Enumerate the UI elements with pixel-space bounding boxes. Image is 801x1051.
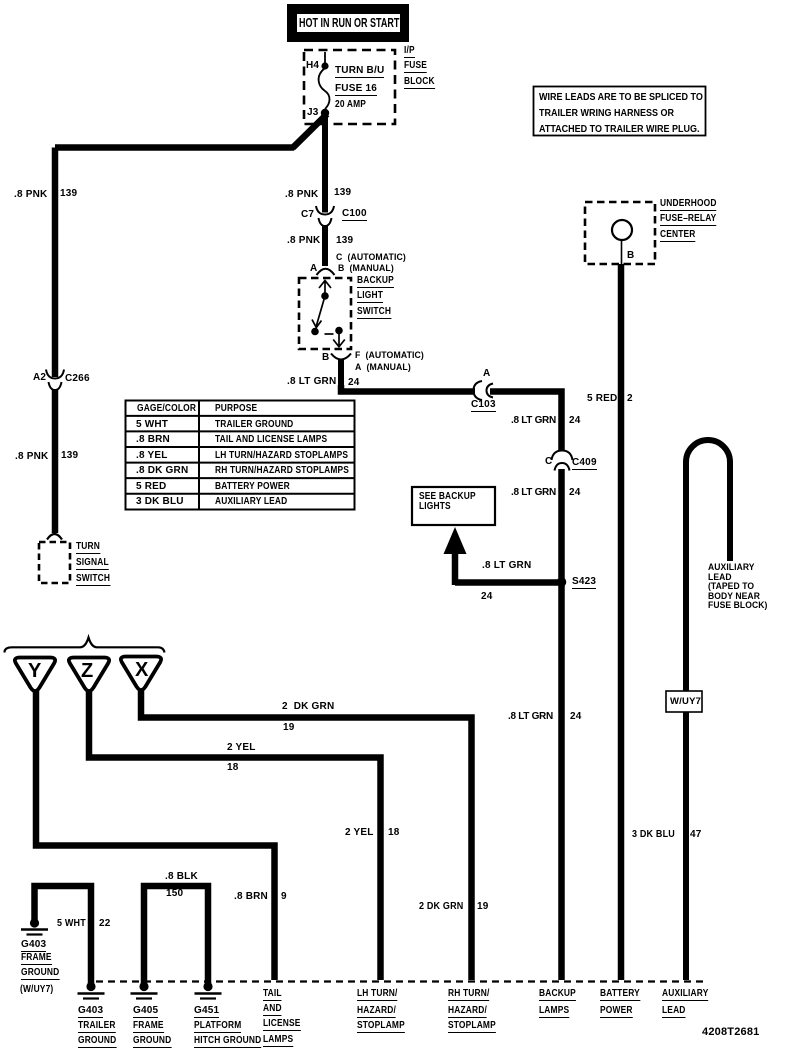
wire .8 PNK 139 horizontal left run <box>55 144 294 151</box>
label W/UY7 <box>670 697 701 707</box>
label 47 <box>690 830 702 840</box>
triangle letter X <box>135 660 148 680</box>
label I/P <box>404 46 415 58</box>
labels G451 PLATFORM HITCH GROUND <box>194 1006 219 1018</box>
label .8 LT GRN (S423 branch) <box>482 561 531 571</box>
table cell 5 WHT <box>136 420 168 430</box>
label C409 <box>572 458 597 470</box>
label 24 (below C409) <box>569 488 581 498</box>
labels AUXILIARY LEAD <box>662 989 708 1001</box>
label C (C409 pin) <box>545 457 552 467</box>
label A (MANUAL) <box>355 363 411 373</box>
label .8 BLK <box>165 872 198 882</box>
label 139 (below C266) <box>61 451 78 461</box>
triangle letter Y <box>28 661 41 681</box>
note box: wire leads spliced <box>534 87 706 136</box>
wire 5 WHT 22 ground loop G403 <box>35 886 92 984</box>
label B (switch bottom pin) <box>322 353 329 363</box>
wire .8 PNK 139 left vertical to C266 <box>52 148 59 378</box>
pin J3 <box>321 109 329 117</box>
label A (C103 pin) <box>483 369 490 379</box>
label .8 LT GRN (switch out) <box>287 377 336 387</box>
triangle letter Z <box>81 661 93 681</box>
trailer connector triangle X <box>121 657 161 691</box>
backup light switch (dashed box) <box>299 278 351 349</box>
arrow to SEE BACKUP LIGHTS <box>444 527 467 554</box>
table cell AUXILIARY LEAD <box>215 497 287 507</box>
label CENTER <box>660 230 696 242</box>
labels G403 FRAME GROUND (W/UY7) <box>21 940 46 952</box>
label C100 <box>342 209 367 221</box>
ground G451 platform hitch ground <box>195 982 222 999</box>
label 22 <box>99 919 111 929</box>
label F (AUTOMATIC) <box>355 351 424 361</box>
wire .8 PNK 139 (C266 down to turn signal switch) <box>52 389 59 533</box>
table cell 3 DK BLU <box>136 497 184 507</box>
label C7 <box>301 210 314 220</box>
label 19 (vertical) <box>477 902 489 912</box>
label HOT IN RUN OR START <box>299 18 399 29</box>
table cell BATTERY POWER <box>215 482 290 492</box>
turn signal switch (dashed box) <box>39 542 70 583</box>
fusible element circle in underhood center <box>612 220 632 240</box>
ground G403 frame ground (W/UY7) <box>21 918 48 934</box>
label .8 PNK (left run) <box>14 190 47 200</box>
label 2 DK GRN (horizontal) <box>282 702 334 712</box>
branch wire from J3 to left run <box>293 114 328 148</box>
wire 2 YEL 18 from Z to LH turn/hazard stoplamp <box>89 690 381 980</box>
pin B lead inside underhood box <box>621 240 623 264</box>
brace over trailer connector triangles <box>5 638 165 653</box>
power box HOT IN RUN OR START <box>287 4 409 42</box>
label pin J3 <box>307 108 319 118</box>
label 2 (5 RED circuit) <box>627 394 633 404</box>
label .8 BRN <box>234 892 268 902</box>
wire .8 LT GRN 24 from C409 down to S423 <box>558 469 565 582</box>
auxiliary lead note <box>708 563 767 611</box>
underhood fuse-relay center (dashed box) <box>585 202 655 264</box>
labels RH TURN/HAZARD/STOPLAMP <box>448 989 489 1001</box>
wire .8 PNK 139 (C100 to backup switch) <box>322 226 328 266</box>
note text: wire leads <box>539 90 703 138</box>
label 20 AMP <box>335 100 366 110</box>
table cell PURPOSE <box>215 404 257 414</box>
wire .8 PNK 139 (J3 down to C100) <box>322 115 328 213</box>
label 139 (left run) <box>60 189 77 199</box>
ground G405 frame ground <box>131 982 158 999</box>
label .8 LT GRN (below C103) <box>511 416 556 426</box>
wire 5 RED 2 down to battery power <box>618 264 625 980</box>
label SIGNAL <box>76 558 109 570</box>
table cell GAGE/COLOR <box>137 404 196 414</box>
label 139 (below C100) <box>336 236 353 246</box>
label 139 (right run) <box>334 188 351 198</box>
label pin B (underhood) <box>627 251 634 261</box>
table cell TRAILER GROUND <box>215 420 293 430</box>
label FUSE-RELAY <box>660 214 716 226</box>
table cell 5 RED <box>136 482 166 492</box>
diagram number 4208T2681 <box>702 1027 759 1037</box>
label LIGHT <box>357 291 383 303</box>
connector A2/C266 <box>46 370 64 391</box>
table cell .8 YEL <box>136 451 168 461</box>
wire .8 LT GRN 24 from S423 down to backup lamps <box>558 582 565 980</box>
label UNDERHOOD <box>660 199 717 211</box>
label .8 LT GRN (below C409) <box>511 488 556 498</box>
labels TAIL AND LICENSE LAMPS <box>263 989 282 1001</box>
label 18 (horizontal) <box>227 763 239 773</box>
label BLOCK <box>404 77 435 89</box>
fuse F16 TURN B/U 20 AMP <box>319 52 330 109</box>
label .8 LT GRN (to backup lamps) <box>508 712 553 722</box>
wire 2 DK GRN 19 from X to RH turn/hazard stoplamp <box>141 690 472 980</box>
table cell .8 DK GRN <box>136 466 188 476</box>
label pin H4 <box>306 61 319 71</box>
label .8 PNK (below C100) <box>287 236 320 246</box>
connector A / B-C at top of backup light switch <box>317 269 335 275</box>
wire .8 BRN 9 from Y to tail and license lamps <box>36 690 275 980</box>
connector at turn signal switch <box>47 534 62 540</box>
auxiliary lead hairpin loop wire 3 DK BLU 47 <box>686 440 730 980</box>
wire .8 LT GRN 24 from C103 to corner and down to C409 <box>490 392 562 451</box>
wire from switch B down to corner <box>338 359 344 391</box>
wire color table grid <box>126 401 355 510</box>
harness boundary dashed line <box>96 980 706 982</box>
label 5 RED <box>587 394 617 404</box>
trailer connector triangle Z <box>69 658 109 692</box>
table cell RH TURN/HAZARD STOPLAMPS <box>215 466 349 476</box>
I/P fuse block (dashed box) <box>304 50 395 124</box>
label 24 (to backup lamps) <box>570 712 582 722</box>
trailer connector triangle Y <box>15 658 55 692</box>
label SWITCH (turn signal) <box>76 574 110 586</box>
label A2 <box>33 373 46 383</box>
connector A/C103 <box>474 381 494 400</box>
label 2 YEL (horizontal) <box>227 743 256 753</box>
label C103 <box>471 400 496 412</box>
table cell LH TURN/HAZARD STOPLAMPS <box>215 451 348 461</box>
label FUSE <box>404 61 427 73</box>
label TURN <box>76 542 100 554</box>
connector C/C409 <box>552 451 573 471</box>
W/UY7 tag box <box>666 691 702 712</box>
label TURN B/U <box>335 66 384 78</box>
table cell TAIL AND LICENSE LAMPS <box>215 435 327 445</box>
label 3 DK BLU <box>632 830 675 840</box>
table cell .8 BRN <box>136 435 170 445</box>
labels BATTERY POWER <box>600 989 640 1001</box>
wire .8 LT GRN 24 branch to see-backup-lights arrow <box>455 551 561 585</box>
labels LH TURN/HAZARD/STOPLAMP <box>357 989 398 1001</box>
connector B / F-A at bottom of backup light switch <box>331 354 351 360</box>
wire .8 BLK 150 ground loop G405/G451 <box>144 886 208 984</box>
ground G403 trailer ground <box>78 982 105 999</box>
wire .8 LT GRN 24 from switch to C103 <box>341 385 475 392</box>
labels G403 TRAILER GROUND <box>78 1006 103 1018</box>
label 19 (horizontal) <box>283 723 295 733</box>
label C266 <box>65 374 90 384</box>
label 2 DK GRN (vertical) <box>419 902 463 912</box>
SEE BACKUP LIGHTS box <box>412 487 495 525</box>
label BACKUP <box>357 276 394 288</box>
splice S423 <box>557 577 567 587</box>
label 18 (vertical) <box>388 828 400 838</box>
label S423 <box>572 577 596 589</box>
label C (AUTOMATIC) <box>336 253 406 263</box>
label FUSE 16 <box>335 84 377 96</box>
label 5 WHT <box>57 919 86 929</box>
label 24 (switch out) <box>348 378 360 388</box>
label SWITCH <box>357 307 391 319</box>
connector C7/C100 <box>316 206 334 226</box>
label 2 YEL (vertical) <box>345 828 374 838</box>
labels BACKUP LAMPS <box>539 989 576 1001</box>
label 150 <box>166 889 183 899</box>
label 24 (below C103) <box>569 416 581 426</box>
label B (MANUAL) <box>338 264 394 274</box>
labels G405 FRAME GROUND <box>133 1006 158 1018</box>
label .8 PNK (right run) <box>285 190 318 200</box>
label A (switch pin) <box>310 264 317 274</box>
label 24 (S423 branch) <box>481 592 493 602</box>
SEE BACKUP LIGHTS box text <box>419 492 476 513</box>
label .8 PNK (below C266) <box>15 452 48 462</box>
label 9 <box>281 892 287 902</box>
switch contacts and arrows <box>311 281 345 347</box>
pin H4 <box>321 62 328 69</box>
